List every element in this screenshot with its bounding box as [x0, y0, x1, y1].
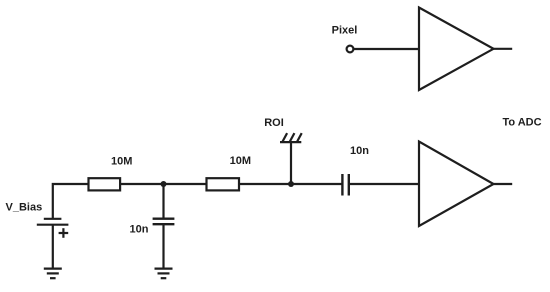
wire: R1 to node A: [120, 183, 163, 185]
wire: C2 to buffer U2 input: [349, 183, 419, 185]
svg-text:10M: 10M: [230, 155, 251, 167]
op-amp buffer U2 (output driver): [419, 142, 494, 227]
svg-text:10n: 10n: [130, 224, 149, 236]
wire: battery bottom to ground: [52, 225, 54, 268]
capacitor C1 10n bottom plate: [153, 223, 175, 225]
wire: U2 output to ADC: [494, 183, 513, 185]
ground (below V_Bias): [44, 268, 62, 270]
capacitor C2 10n left plate: [341, 174, 343, 196]
wire: node B up to ROI antenna: [290, 142, 292, 184]
resistor R1 10M: [89, 178, 121, 190]
terminal pin Pixel (open circle): [347, 46, 354, 53]
svg-text:To ADC: To ADC: [502, 117, 541, 129]
node B junction dot: [288, 181, 294, 187]
svg-text:Pixel: Pixel: [332, 24, 358, 36]
battery plus sign: [59, 232, 69, 234]
capacitor C2 10n right plate: [348, 174, 350, 196]
ROI antenna hatch 2: [290, 133, 295, 142]
wire: Pixel terminal to buffer U1 input: [354, 48, 419, 50]
wire: node A to R2: [164, 183, 207, 185]
svg-text:ROI: ROI: [264, 117, 284, 129]
ROI antenna hatch 3: [297, 133, 302, 142]
wire: node A down to capacitor C1: [162, 184, 164, 218]
wire: C1 bottom to ground: [162, 224, 164, 268]
resistor R2 10M: [207, 178, 240, 190]
ground (below C1): [155, 268, 173, 270]
ROI antenna/chassis symbol bar: [280, 141, 301, 143]
capacitor C1 10n top plate: [153, 217, 175, 219]
svg-text:10n: 10n: [350, 145, 369, 157]
wire: battery top to node, vertical riser: [53, 184, 89, 218]
svg-text:V_Bias: V_Bias: [6, 202, 43, 214]
wire: U1 output: [494, 48, 513, 50]
op-amp buffer U1 (pixel follower): [419, 8, 494, 91]
wire: R2 to node B: [239, 183, 291, 185]
node A junction dot: [161, 181, 167, 187]
svg-text:10M: 10M: [111, 155, 132, 167]
voltage source V_Bias (battery) short plate: [44, 218, 62, 220]
voltage source V_Bias (battery) long plate: [37, 224, 69, 226]
ROI antenna hatch 1: [282, 133, 287, 142]
wire: node B to capacitor C2: [291, 183, 342, 185]
